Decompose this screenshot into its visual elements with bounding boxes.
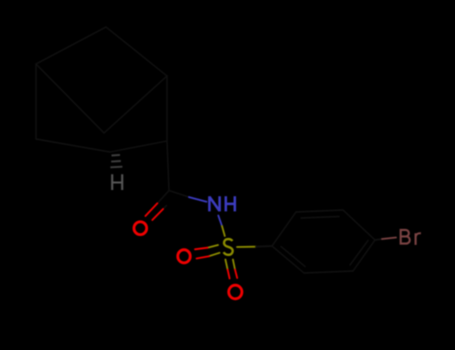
wire: bridge A-C7 [36,64,104,133]
wire: TR-R [343,210,375,240]
S label [224,239,233,255]
aromatic inner line TL-TR [301,217,339,219]
bottom sulfonyl O label [229,285,242,299]
NH label [209,196,234,211]
bicyclic pinane ring system [36,27,189,209]
wire: TL-TR [296,210,343,212]
aromatic inner line R-BR [350,241,368,266]
carbonyl C=O double bond [145,203,163,220]
amide C-N bond (N half) [189,197,207,202]
N-S bond [218,216,225,237]
wire: L-TL [272,212,296,246]
wire: left wall A-B [35,64,37,139]
wire: roof left F-A [36,27,106,64]
wire: bottom right C1-D [110,141,167,152]
Br label [401,229,421,245]
hashed wedge to stereo H [110,155,122,167]
wire: D to carbonyl carbon [167,141,169,191]
wire: BL-L [272,246,304,273]
wire: BR-BL [304,271,353,273]
wire: carbonyl C half of C=O outer line [157,191,169,204]
wire: bottom left B-C1 [36,139,110,152]
carbonyl O label [134,222,147,235]
S=O left double bond [195,245,220,259]
S-aryl bond [237,246,272,247]
wire: R-BR [353,240,375,271]
wire: carbon half of C-N bond [169,191,189,198]
aryl-Br bond [375,238,396,241]
wire: carbonyl C half of C=O inner line [163,206,166,210]
wire: bridge C7-E [104,76,167,133]
wire: roof right F-E [106,27,167,76]
aromatic inner line BL-L [281,247,305,267]
stereo H label [112,174,122,190]
S=O bottom double bond [225,260,237,279]
benzene ring [272,210,375,273]
wire: right wall E-D [166,76,168,141]
left sulfonyl O label [178,250,191,263]
